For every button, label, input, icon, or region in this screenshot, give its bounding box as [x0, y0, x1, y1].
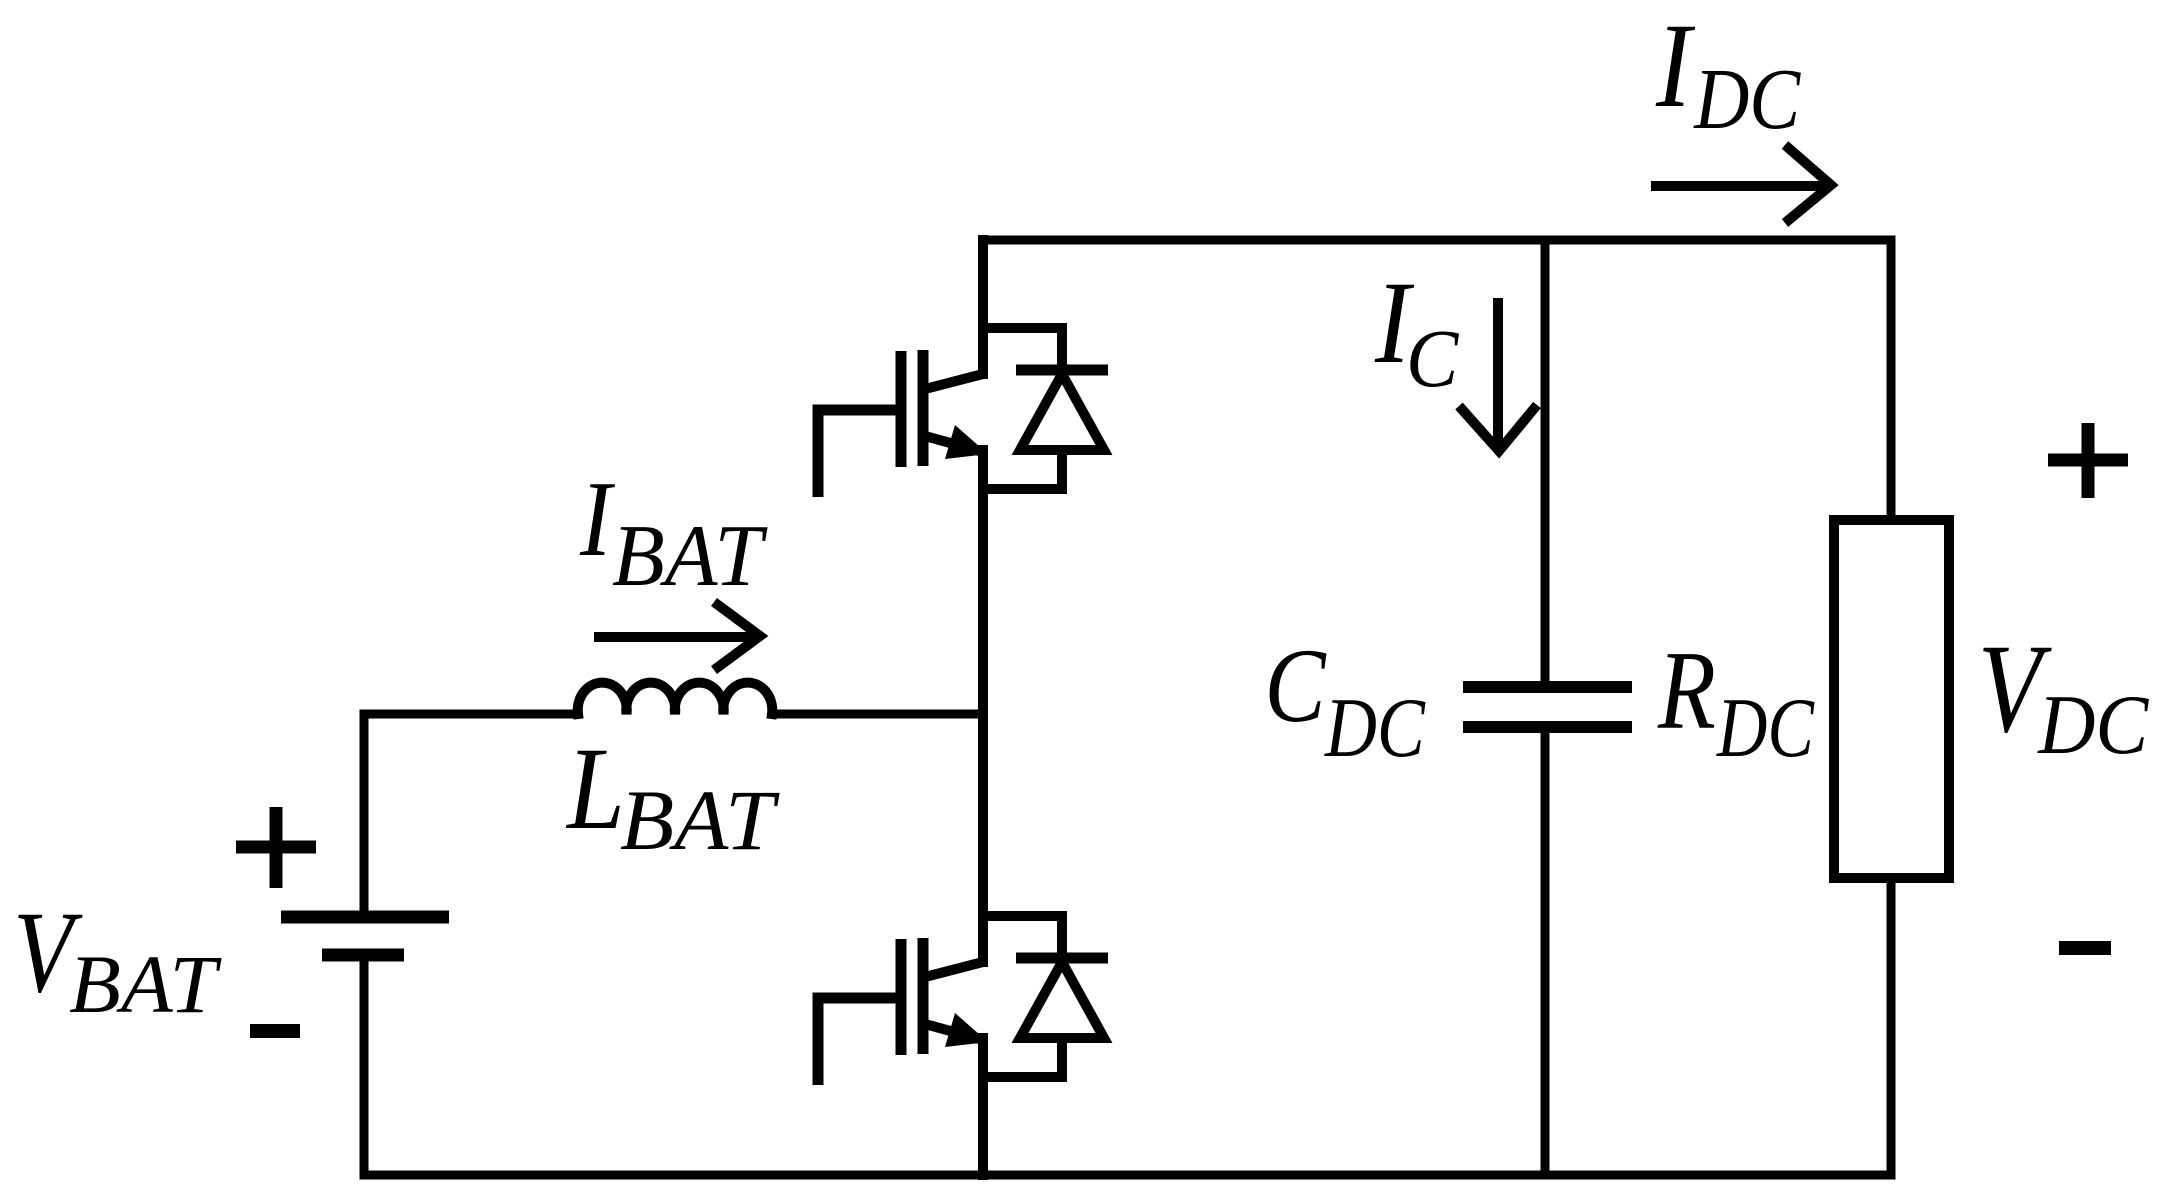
svg-text:I: I: [1655, 0, 1696, 133]
svg-text:L: L: [565, 723, 625, 854]
svg-text:BAT: BAT: [612, 508, 768, 605]
svg-text:C: C: [1265, 627, 1327, 744]
svg-text:DC: DC: [1716, 681, 1815, 775]
svg-text:I: I: [579, 460, 616, 579]
svg-text:BAT: BAT: [620, 772, 780, 868]
svg-text:BAT: BAT: [69, 938, 222, 1030]
svg-text:R: R: [1657, 629, 1716, 753]
svg-text:C: C: [1406, 312, 1460, 404]
svg-text:DC: DC: [1324, 681, 1426, 775]
svg-text:DC: DC: [1693, 50, 1801, 147]
svg-text:DC: DC: [2037, 678, 2149, 772]
